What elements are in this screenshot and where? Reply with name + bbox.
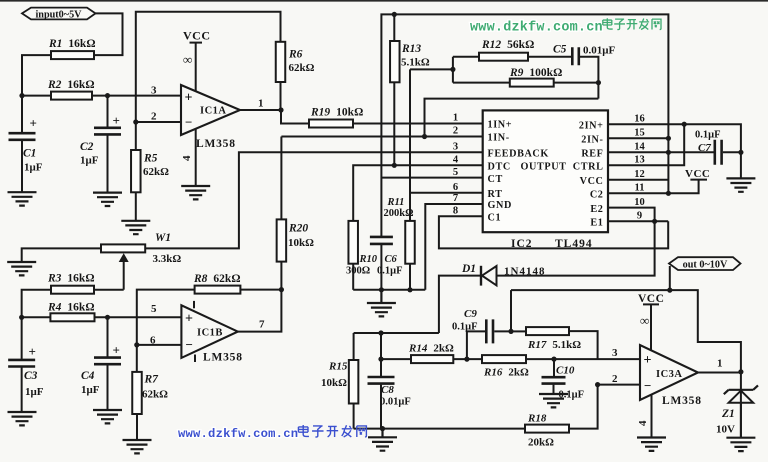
svg-text:LM358: LM358	[662, 395, 702, 407]
wire VCC to IC3A pin8	[650, 304, 652, 350]
node out flag junction	[667, 288, 672, 293]
ground W1 left	[7, 262, 36, 275]
power VCC bar TL494	[690, 179, 707, 181]
wire IC1B pin6	[137, 344, 182, 346]
node R13/DTC junction	[392, 163, 397, 168]
wire node down to C4	[107, 317, 109, 356]
svg-text:3: 3	[612, 347, 618, 359]
svg-text:E1: E1	[590, 218, 603, 229]
wire pin8 C1 loop	[439, 216, 668, 248]
capacitor C9	[486, 319, 493, 343]
svg-text:1μF: 1μF	[25, 386, 44, 398]
svg-text:IC1A: IC1A	[200, 106, 227, 117]
IC U2 TL494 body	[483, 110, 608, 232]
wire C7 node to ground	[740, 152, 742, 177]
svg-text:www.dzkfw.com.cn: www.dzkfw.com.cn	[178, 427, 298, 441]
svg-text:200kΩ: 200kΩ	[384, 208, 414, 219]
wire ground bus	[353, 289, 425, 291]
wire R9 right	[554, 82, 599, 84]
wire C8 bottom	[380, 385, 382, 429]
svg-text:R416kΩ: R416kΩ	[47, 302, 95, 314]
svg-text:R9100kΩ: R9100kΩ	[509, 67, 562, 79]
svg-text:+: +	[113, 343, 120, 358]
wire C4 to ground	[107, 365, 109, 409]
resistor R3	[51, 286, 94, 294]
wire filter top bus	[354, 332, 439, 334]
svg-text:11: 11	[635, 183, 645, 194]
svg-text:15: 15	[634, 128, 645, 139]
wire VCC to IC1A pin8	[195, 43, 197, 92]
svg-text:C3: C3	[24, 370, 38, 382]
svg-text:62kΩ: 62kΩ	[143, 166, 169, 178]
capacitor C3	[8, 360, 35, 367]
wire TL494 pin5 CT	[381, 177, 482, 179]
wire D1 cathode to filter node	[439, 276, 481, 333]
wire pin10 E2	[608, 208, 655, 222]
svg-text:R316kΩ: R316kΩ	[47, 273, 95, 285]
svg-text:LM358: LM358	[196, 138, 236, 150]
node output junction	[738, 369, 743, 374]
svg-text:1μF: 1μF	[80, 155, 99, 167]
svg-text:2IN+: 2IN+	[579, 120, 604, 131]
svg-text:3: 3	[151, 85, 157, 97]
ground under IC1A pin4	[181, 186, 210, 199]
ground under C7	[726, 178, 755, 191]
wire R3 left down to node	[22, 290, 51, 318]
node pin2 riser junction	[422, 134, 427, 139]
resistor R16	[482, 355, 526, 363]
svg-text:CT: CT	[488, 174, 503, 185]
svg-text:R7: R7	[144, 374, 160, 386]
svg-text:IC3A: IC3A	[656, 369, 683, 380]
svg-text:out 0~10V: out 0~10V	[683, 260, 728, 271]
resistor R13	[390, 41, 400, 82]
ground under C10	[539, 394, 568, 407]
svg-text:C1: C1	[23, 148, 36, 160]
wire node down to C1	[21, 96, 23, 133]
wire R17 left	[511, 330, 526, 332]
wire TL494 pin4 DTC	[353, 165, 483, 221]
svg-text:14: 14	[634, 142, 645, 153]
wire R15 top stem	[353, 333, 355, 360]
svg-text:R6: R6	[288, 49, 303, 61]
svg-text:10: 10	[634, 197, 645, 208]
ground under R5	[121, 221, 150, 234]
svg-text:W1: W1	[155, 232, 171, 244]
wire W1 wiper stem	[123, 261, 125, 290]
svg-text:C4: C4	[81, 370, 95, 382]
ground under C1	[8, 192, 37, 205]
wire R4 to IC1B pin5	[95, 316, 182, 318]
wire R15 bottom	[353, 404, 355, 429]
svg-text:−: −	[644, 378, 651, 393]
node out flag out 0~10V	[669, 257, 741, 270]
potentiometer W1 body	[101, 244, 145, 252]
wire R8 left leg	[137, 290, 195, 372]
node junction R8/R7/pin6	[134, 342, 139, 347]
node E1/E2 junction	[652, 219, 657, 224]
svg-text:C2: C2	[590, 190, 604, 201]
resistor R10	[348, 221, 358, 264]
node junction R4/C4	[105, 315, 110, 320]
resistor R18	[525, 425, 569, 433]
svg-text:GND: GND	[488, 200, 512, 211]
wire R7 to ground	[136, 414, 138, 439]
wire TL494 pin7 GND	[425, 204, 482, 290]
wire C6 bottom	[380, 245, 382, 290]
svg-text:+: +	[30, 116, 37, 131]
wire E node down to D1	[497, 221, 655, 275]
svg-text:∞: ∞	[640, 313, 649, 328]
ground mid bus	[367, 290, 396, 317]
wire R10 bottom	[352, 264, 354, 290]
resistor R7	[132, 372, 142, 414]
node pin16/pin13 junction	[682, 122, 687, 127]
wire R8 right to R20 node	[240, 289, 281, 291]
watermark bottom cjk 电子开发网	[298, 425, 309, 436]
svg-text:OUTPUT: OUTPUT	[521, 161, 567, 172]
capacitor C6	[370, 237, 393, 244]
capacitor C5	[572, 47, 579, 65]
svg-text:12: 12	[634, 169, 645, 180]
svg-text:REF: REF	[581, 149, 603, 160]
resistor R14	[411, 355, 453, 363]
ground under C3	[8, 412, 37, 425]
svg-text:C10: C10	[556, 365, 575, 377]
resistor R15	[349, 360, 359, 404]
svg-text:0.1μF: 0.1μF	[452, 322, 478, 333]
svg-text:2IN-: 2IN-	[581, 135, 603, 146]
wire R6 bottom to output node	[280, 82, 282, 110]
svg-text:D1: D1	[461, 263, 476, 275]
resistor R9	[510, 79, 554, 87]
wire node to R4	[22, 316, 51, 318]
capacitor C8	[368, 377, 395, 384]
wire C7 left	[668, 151, 713, 153]
svg-text:C7: C7	[698, 142, 711, 154]
wire W1 left to ground	[22, 248, 101, 261]
wire R20 top stem	[280, 137, 282, 220]
node pin14 junction	[666, 150, 671, 155]
svg-text:7: 7	[453, 193, 458, 204]
wire C9 right	[494, 330, 511, 332]
svg-text:300Ω: 300Ω	[346, 266, 370, 277]
wire R5 to ground	[135, 192, 137, 220]
svg-text:VCC: VCC	[183, 29, 211, 43]
svg-text:R11: R11	[387, 197, 405, 208]
resistor R17	[526, 327, 569, 335]
wire C8 column	[380, 333, 382, 376]
svg-text:DTC: DTC	[488, 162, 511, 173]
node C10 tap	[551, 357, 556, 362]
svg-text:IC1B: IC1B	[197, 328, 223, 339]
potentiometer W1 wiper arrow	[119, 253, 129, 262]
node pin15 junction	[666, 136, 671, 141]
node junction R20/R8	[279, 287, 284, 292]
svg-text:9: 9	[637, 211, 642, 222]
resistor R1	[51, 51, 94, 59]
svg-text:LM358: LM358	[203, 352, 243, 364]
wire out flag leg	[669, 266, 671, 290]
svg-text:+: +	[29, 344, 36, 359]
wire C10 bottom	[553, 385, 555, 394]
svg-text:0.1μF: 0.1μF	[695, 130, 721, 141]
wire R12 to C5	[528, 56, 571, 58]
svg-text:+: +	[185, 91, 193, 106]
wire node to R2	[22, 95, 51, 97]
svg-text:C1: C1	[488, 213, 502, 224]
svg-text:0.01μF: 0.01μF	[583, 45, 615, 57]
svg-text:1IN-: 1IN-	[488, 133, 510, 144]
op-amp IC3A	[640, 345, 698, 400]
wire pin2 node down to R5	[135, 122, 137, 150]
svg-text:1μF: 1μF	[24, 162, 43, 174]
node R9/C5 junction	[596, 80, 601, 85]
svg-text:R216kΩ: R216kΩ	[47, 79, 95, 91]
scan edge top border	[0, 0, 768, 2]
wire R17 right to pin3 run	[569, 331, 598, 359]
wire to R9	[453, 82, 510, 84]
svg-text:1N4148: 1N4148	[504, 266, 545, 278]
wire bottom ground bus	[354, 428, 525, 430]
wire R11 bottom	[409, 264, 411, 290]
power VCC bar IC1A	[190, 42, 203, 44]
wire TL494 pin2 1IN- net	[281, 136, 482, 138]
node bus C8 junction	[378, 330, 383, 335]
svg-text:10kΩ: 10kΩ	[321, 377, 347, 389]
svg-text:C8: C8	[381, 384, 394, 396]
svg-text:R116kΩ: R116kΩ	[48, 38, 96, 50]
wire pin12	[608, 179, 668, 181]
svg-text:C5: C5	[553, 44, 567, 56]
svg-text:+: +	[185, 312, 193, 327]
watermark top cjk 电子开发网	[603, 18, 613, 29]
capacitor C4	[94, 358, 121, 365]
node R12/R9 left junction	[450, 67, 455, 72]
node C9/R17 junction	[508, 329, 513, 334]
wire IC3A pin4 to ground	[651, 395, 653, 437]
svg-text:Z1: Z1	[721, 408, 735, 420]
svg-text:C6: C6	[385, 254, 398, 265]
wire R14 left	[381, 358, 411, 360]
node junction R1/R2/C1	[19, 93, 24, 98]
node junction IC1A pin2	[133, 119, 138, 124]
svg-text:E2: E2	[590, 204, 603, 215]
wire rail IC1A inverting to R6 top	[136, 12, 281, 122]
node bus R11 junction	[407, 287, 412, 292]
wire C3 to ground	[21, 368, 23, 412]
svg-text:1IN+: 1IN+	[488, 120, 513, 131]
svg-text:VCC: VCC	[638, 293, 664, 305]
wire TL494 pin3 FEEDBACK to W1	[145, 152, 483, 248]
svg-text:R862kΩ: R862kΩ	[193, 273, 241, 285]
wire R13 column top	[393, 14, 395, 41]
wire C10 stem	[553, 359, 555, 376]
capacitor C7	[715, 140, 722, 165]
svg-text:R175.1kΩ: R175.1kΩ	[527, 339, 581, 351]
resistor R6	[276, 42, 286, 82]
svg-text:C2: C2	[80, 141, 94, 153]
resistor R4	[50, 313, 94, 321]
wire output to Z1	[740, 372, 742, 437]
wire R3 right to wiper	[94, 289, 124, 291]
ground under Z1	[726, 438, 755, 451]
resistor R11	[405, 221, 415, 264]
wire R13 bottom to DTC	[393, 82, 395, 165]
svg-text:R5: R5	[143, 153, 158, 165]
node IC1A output junction	[278, 107, 283, 112]
svg-text:0.01μF: 0.01μF	[380, 397, 411, 408]
svg-text:2: 2	[612, 373, 618, 385]
wire output node down to R19	[281, 110, 309, 124]
svg-text:10V: 10V	[716, 424, 735, 436]
svg-text:8: 8	[453, 206, 458, 217]
svg-text:13: 13	[634, 154, 645, 165]
wire input flag to R1	[94, 13, 123, 55]
svg-text:CTRL: CTRL	[573, 161, 604, 172]
wire C7 right	[723, 151, 741, 153]
capacitor C1	[9, 133, 36, 140]
wire pin2 riser to feedback network	[425, 99, 599, 137]
svg-text:C9: C9	[464, 308, 477, 320]
wire VCC rail top	[381, 14, 668, 236]
svg-text:3.3kΩ: 3.3kΩ	[153, 253, 182, 265]
node rail R13 junction	[392, 12, 397, 17]
ground under IC3A pin4	[637, 438, 666, 451]
ground under R7	[123, 440, 152, 453]
svg-text:4: 4	[453, 155, 459, 166]
svg-text:1: 1	[453, 113, 458, 124]
wire C9 node riser	[510, 290, 512, 331]
wire C2 to ground	[107, 135, 109, 192]
svg-text:−: −	[185, 115, 192, 130]
resistor R19	[309, 120, 353, 128]
node pin11 junction	[666, 191, 671, 196]
wire node down to C3	[21, 317, 23, 359]
power VCC bar IC3A	[643, 303, 659, 305]
svg-text:FEEDBACK: FEEDBACK	[488, 149, 549, 160]
svg-text:62kΩ: 62kΩ	[289, 62, 315, 74]
svg-text:1: 1	[717, 358, 723, 370]
wire pin9 E1	[608, 220, 668, 222]
zener diode Z1	[724, 385, 758, 394]
wire C5 right down to R9 right	[580, 57, 599, 83]
capacitor C10	[542, 377, 566, 383]
node C8/R14 junction	[378, 357, 383, 362]
svg-text:62kΩ: 62kΩ	[142, 389, 168, 401]
svg-text:4: 4	[637, 420, 649, 426]
resistor R5	[131, 150, 141, 192]
resistor R20	[277, 219, 287, 261]
svg-text:2: 2	[453, 126, 458, 137]
pin stub IC1B top	[193, 301, 195, 308]
svg-text:R1256kΩ: R1256kΩ	[481, 39, 534, 51]
wire C1 to ground	[21, 141, 23, 192]
wire IC3A pin2	[598, 384, 640, 386]
op-amp IC1B	[181, 305, 237, 358]
node junction R3/R4/C3	[19, 315, 24, 320]
svg-text:R10: R10	[359, 254, 378, 265]
svg-text:−: −	[186, 337, 193, 352]
ground bottom bus	[368, 429, 397, 451]
svg-text:4: 4	[181, 155, 193, 161]
svg-text:∞: ∞	[183, 52, 192, 67]
op-amp IC1A	[181, 85, 240, 135]
wire to R12	[453, 56, 479, 58]
wire pin11	[608, 192, 668, 194]
ground under C4	[93, 410, 122, 423]
wire pin14	[608, 151, 668, 153]
svg-text:+: +	[113, 113, 120, 128]
svg-text:16: 16	[634, 113, 645, 124]
wire Z1 to ground	[740, 403, 742, 437]
svg-text:R1910kΩ: R1910kΩ	[310, 107, 363, 119]
resistor R2	[51, 92, 92, 100]
wire IC1A pin4 to ground	[195, 129, 197, 186]
svg-text:VCC: VCC	[580, 176, 604, 187]
ground under C2	[93, 193, 122, 206]
svg-text:5: 5	[151, 303, 157, 315]
svg-text:R18: R18	[527, 413, 547, 425]
node IC3A pin2 junction	[595, 382, 600, 387]
wire output bus	[511, 290, 741, 370]
svg-text:2: 2	[151, 111, 157, 123]
svg-text:20kΩ: 20kΩ	[528, 437, 554, 449]
wire R20 bottom to IC1B output	[238, 262, 282, 332]
node R14/R16/C9 junction	[464, 357, 469, 362]
wire pin2 down to R18	[569, 385, 598, 429]
svg-text:R20: R20	[288, 223, 308, 235]
wire IC1A output	[240, 109, 281, 111]
node input flag input0~5V	[22, 8, 96, 20]
svg-text:10kΩ: 10kΩ	[288, 237, 314, 249]
diode D1 1N4148	[482, 266, 497, 285]
svg-text:RT: RT	[488, 189, 503, 200]
node bus C6 junction	[379, 287, 384, 292]
wire pin15	[608, 137, 668, 139]
node junction R2/C2	[105, 93, 110, 98]
resistor R12	[479, 53, 528, 61]
wire R19 to TL494 pin1	[353, 123, 483, 125]
svg-text:6: 6	[453, 182, 458, 193]
wire R1 left down to node	[22, 55, 51, 96]
svg-text:R15: R15	[328, 361, 348, 373]
wire node down to C2	[107, 96, 109, 127]
wire TL494 pin6 RT	[410, 192, 483, 194]
svg-text:1μF: 1μF	[81, 384, 100, 396]
svg-text:3: 3	[453, 142, 458, 153]
pin stub IC1B bottom	[194, 355, 196, 363]
svg-text:www.dzkfw.com.cn: www.dzkfw.com.cn	[470, 21, 603, 36]
resistor R8	[195, 286, 241, 294]
svg-text:5: 5	[453, 167, 458, 178]
wire pin16 2IN+ net	[608, 124, 741, 151]
svg-text:7: 7	[259, 319, 265, 331]
wire R14 to R16	[453, 358, 482, 360]
svg-text:R13: R13	[401, 43, 421, 55]
wire R11 column	[409, 69, 411, 221]
svg-text:input0~5V: input0~5V	[35, 10, 82, 21]
capacitor C2	[94, 128, 121, 135]
svg-text:VCC: VCC	[685, 168, 710, 180]
wire IC3A output	[698, 372, 741, 374]
wire R12R9 left bracket	[410, 57, 453, 83]
wire VCC to pin11	[668, 180, 698, 194]
wire pin2 to IC1A	[136, 121, 181, 123]
node ground bus junction	[380, 426, 385, 431]
wire feedback net down	[597, 83, 599, 99]
wire R2 to IC1A noninverting input pin3	[92, 95, 181, 97]
